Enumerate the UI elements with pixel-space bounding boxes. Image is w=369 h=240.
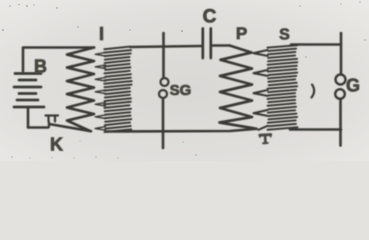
wire S bottom to gap G (290, 128, 341, 131)
coil I zigzag (primary of induction coil) (67, 48, 94, 132)
gap G branch wire bottom (339, 100, 342, 146)
svg-text:K: K (50, 135, 63, 155)
svg-text:G: G (346, 76, 360, 96)
key K contact post (46, 116, 59, 128)
label T (260, 134, 271, 143)
svg-text:SG: SG (170, 82, 192, 99)
spark gap SG branch wire top (162, 33, 165, 77)
induction coil secondary left ticks (95, 52, 105, 130)
stray arc mark (312, 85, 315, 98)
gap G ball upper (336, 75, 346, 85)
wire battery top to coil I (23, 48, 94, 72)
svg-text:B: B (34, 57, 47, 77)
capacitor C right plate (209, 29, 212, 59)
wire S top to gap G (291, 43, 341, 46)
key K lever (49, 124, 91, 131)
gap G branch wire top (340, 33, 343, 74)
svg-text:P: P (236, 24, 247, 43)
spark gap SG branch wire bottom (162, 99, 165, 149)
svg-text:S: S (279, 27, 290, 44)
capacitor C left plate (201, 29, 204, 59)
spark gap SG ball upper (161, 78, 169, 86)
svg-text:C: C (203, 7, 217, 28)
primary coil P zigzag (220, 46, 257, 129)
bottom wire coil to T node (106, 129, 257, 132)
wire battery bottom to key (28, 107, 48, 128)
battery B plates (14, 74, 44, 108)
secondary coil S hatching (268, 45, 298, 130)
svg-text:I: I (99, 24, 104, 44)
gap G ball lower (335, 89, 345, 99)
wire coil top to capacitor (131, 46, 202, 47)
wire capacitor to primary P (213, 44, 230, 47)
paper specks (2, 1, 366, 159)
induction coil secondary hatching (104, 47, 132, 132)
spark gap SG ball lower (159, 90, 167, 98)
secondary coil S left loops (254, 50, 268, 130)
